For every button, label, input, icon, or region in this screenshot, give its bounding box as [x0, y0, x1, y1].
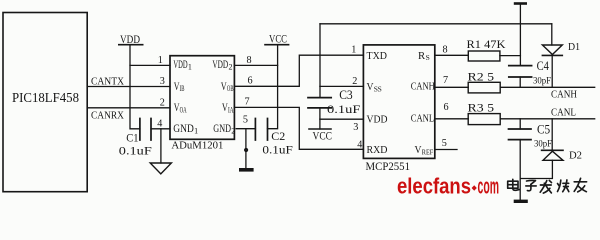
- svg-text:CANRX: CANRX: [91, 109, 124, 121]
- svg-text:4: 4: [157, 119, 162, 130]
- svg-text:CANTX: CANTX: [91, 75, 124, 87]
- svg-text:2: 2: [160, 97, 165, 108]
- resistor R3 body: [468, 114, 500, 125]
- svg-text:MCP2551: MCP2551: [366, 159, 411, 173]
- junction dot: [244, 148, 248, 152]
- wire rail to C3/VSS: [319, 24, 321, 98]
- resistor R1 body: [468, 51, 500, 61]
- svg-text:1: 1: [351, 45, 356, 56]
- wire top ground vertical: [519, 5, 521, 66]
- svg-text:RXD: RXD: [367, 145, 388, 156]
- wire C5 to ground bar: [519, 140, 521, 200]
- svg-text:R2 5: R2 5: [468, 71, 495, 83]
- svg-text:V: V: [367, 82, 374, 93]
- svg-text:6: 6: [248, 76, 253, 87]
- svg-text:2: 2: [231, 126, 235, 135]
- IC U3 MCP2551 box: [363, 45, 434, 158]
- svg-text:C3: C3: [339, 88, 353, 102]
- svg-text:30pF: 30pF: [533, 77, 551, 87]
- svg-text:0.1uF: 0.1uF: [119, 146, 152, 158]
- wire C1 to GND1 pin4: [151, 128, 170, 130]
- svg-text:TXD: TXD: [367, 51, 388, 62]
- char shao: [558, 180, 561, 191]
- capacitor C1 plates: [140, 119, 151, 141]
- svg-text:D2: D2: [569, 150, 582, 162]
- svg-text:CANH: CANH: [551, 88, 577, 100]
- char zi: [527, 180, 536, 184]
- svg-text:5: 5: [243, 115, 248, 126]
- svg-text:com: com: [478, 173, 500, 198]
- wire VIA pin7 to RXD: [234, 107, 363, 149]
- wire CANH pin7 to R2: [435, 86, 468, 88]
- svg-text:6: 6: [444, 102, 449, 113]
- VDD power symbol bar: [119, 44, 143, 46]
- wire CANL pin6 to R3: [435, 118, 468, 120]
- svg-text:VCC: VCC: [269, 34, 287, 46]
- diode D1 anode wire: [551, 24, 553, 45]
- ground bar GND2: [239, 168, 254, 172]
- char dian: [513, 179, 520, 190]
- diode D1 cathode bar: [542, 54, 562, 56]
- svg-text:1: 1: [194, 126, 198, 135]
- wire D1 to CANH: [551, 55, 553, 87]
- svg-text:GND: GND: [213, 123, 231, 135]
- svg-text:4: 4: [357, 139, 362, 150]
- diode D1 triangle: [542, 45, 562, 55]
- svg-text:7: 7: [443, 75, 448, 86]
- ground rail top: [320, 23, 552, 25]
- svg-text:elecfans: elecfans: [397, 173, 471, 198]
- svg-text:8: 8: [247, 55, 252, 66]
- svg-text:VDD: VDD: [120, 32, 140, 46]
- wire CANL line: [500, 118, 595, 120]
- svg-text:0.1uF: 0.1uF: [262, 145, 293, 157]
- watermark chinese characters 电子发烧友: [508, 178, 587, 193]
- wire R1 to ground vertical: [500, 55, 521, 57]
- svg-text:1: 1: [158, 55, 163, 66]
- VCC power symbol bar (below C3): [309, 128, 331, 130]
- svg-text:2: 2: [229, 62, 233, 71]
- svg-text:3: 3: [353, 122, 358, 133]
- wire VCC vertical to C2: [268, 45, 278, 129]
- svg-text:VDD: VDD: [367, 115, 388, 126]
- wire GND2 pin5: [236, 128, 255, 130]
- wire VDD vertical to C1: [130, 45, 140, 129]
- wire VOB pin6 to TXD: [234, 55, 363, 86]
- svg-text:REF: REF: [422, 147, 434, 156]
- svg-text:S: S: [426, 53, 430, 62]
- wire VREF pin5 stub: [435, 149, 457, 151]
- svg-text:C1: C1: [126, 132, 139, 144]
- capacitor C3 plates: [308, 98, 331, 108]
- svg-text:ADuM1201: ADuM1201: [171, 141, 223, 152]
- svg-text:R1 47K: R1 47K: [467, 39, 507, 51]
- wire CANRX: [87, 107, 170, 109]
- wire VDD1 pin1: [130, 64, 170, 66]
- IC U2 ADuM1201 box: [170, 56, 234, 140]
- VCC power symbol bar (left): [265, 44, 289, 46]
- svg-text:IB: IB: [180, 84, 185, 93]
- svg-text:8: 8: [443, 44, 448, 55]
- wire VDD pin3: [320, 118, 364, 120]
- wire CANTX: [87, 86, 170, 88]
- wire D2 to ground: [521, 160, 553, 178]
- svg-text:C4: C4: [537, 59, 550, 73]
- svg-text:CANL: CANL: [551, 106, 576, 118]
- svg-text:SS: SS: [374, 84, 382, 93]
- svg-text:CANH: CANH: [411, 82, 435, 93]
- svg-text:GND: GND: [173, 123, 194, 135]
- svg-text:VDD: VDD: [173, 59, 187, 71]
- svg-text:V: V: [415, 145, 422, 156]
- wire CANH line: [500, 86, 595, 88]
- svg-text:7: 7: [245, 97, 250, 108]
- wire C4 to CANH: [519, 77, 521, 87]
- svg-text:R3 5: R3 5: [468, 103, 495, 115]
- wire RS pin8 to R1: [435, 54, 469, 56]
- ground bar bottom right: [514, 200, 528, 203]
- svg-text:VCC: VCC: [313, 131, 333, 143]
- diode D2 triangle: [543, 151, 563, 160]
- capacitor C2 plates: [255, 119, 267, 141]
- wire CANL to D2: [551, 119, 553, 151]
- wire C5 vertical: [519, 119, 521, 129]
- svg-text:0.1uF: 0.1uF: [327, 104, 360, 116]
- svg-text:1: 1: [188, 62, 192, 71]
- svg-text:D1: D1: [568, 41, 580, 53]
- ground symbol triangle: [150, 163, 171, 174]
- resistor R2 body: [468, 82, 500, 93]
- svg-text:5: 5: [442, 138, 447, 149]
- wire VDD2 pin8: [234, 64, 277, 66]
- svg-text:C2: C2: [271, 131, 285, 143]
- diode D2 cathode bar: [542, 149, 563, 151]
- svg-text:PIC18LF458: PIC18LF458: [12, 90, 79, 105]
- wire ground stub: [160, 129, 162, 163]
- svg-text:2: 2: [352, 76, 357, 87]
- wire C3 to VCC: [319, 108, 321, 129]
- svg-text:IA: IA: [228, 105, 234, 114]
- svg-text:OA: OA: [180, 105, 187, 114]
- IC U1 PIC18LF458 box: [3, 13, 87, 192]
- svg-text:C5: C5: [537, 122, 550, 136]
- svg-text:VDD: VDD: [212, 59, 228, 71]
- svg-text:30pF: 30pF: [534, 140, 552, 150]
- svg-text:CANL: CANL: [411, 113, 435, 124]
- char you: [574, 181, 586, 183]
- char fa: [540, 181, 547, 193]
- capacitor C4 plates: [509, 66, 532, 77]
- svg-text:3: 3: [160, 76, 165, 87]
- capacitor C5 plates: [509, 129, 532, 140]
- watermark elecfans logo: [397, 173, 499, 198]
- svg-text:OB: OB: [227, 84, 234, 93]
- wire GND2 down: [245, 129, 247, 168]
- wire VSS pin2: [320, 85, 364, 87]
- ground bar top right: [514, 2, 527, 5]
